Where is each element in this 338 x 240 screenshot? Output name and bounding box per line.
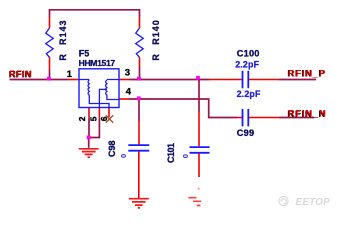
- resistor R143 pins: [49, 17, 51, 70]
- svg-text:HHM1517: HHM1517: [79, 58, 116, 68]
- resistor R143: [46, 28, 54, 57]
- svg-text:3: 3: [125, 67, 130, 78]
- wire branch down to C98: [138, 99, 140, 121]
- ground 2 under C98: [129, 199, 149, 208]
- wire pin4 net to C99: [130, 99, 238, 118]
- resistor R140: [136, 28, 144, 57]
- svg-text:0: 0: [181, 154, 190, 158]
- svg-text:C101: C101: [166, 143, 176, 163]
- svg-text:C100: C100: [237, 48, 260, 58]
- watermark EETOP logo: [279, 196, 288, 205]
- ground 1 under F5: [79, 149, 99, 157]
- balun F5 primary winding: [79, 80, 109, 108]
- balun F5 pin3 stub: [119, 79, 130, 81]
- capacitor C98 bottom pin: [138, 152, 140, 199]
- svg-text:5: 5: [89, 116, 99, 121]
- svg-text:C98: C98: [107, 140, 117, 157]
- svg-text:4: 4: [126, 86, 132, 97]
- resistor R140 pins: [139, 17, 141, 67]
- svg-text:EETOP: EETOP: [296, 197, 331, 208]
- svg-text:RFIN_N: RFIN_N: [288, 108, 327, 119]
- wire R143 bottom to junction: [49, 70, 51, 80]
- wire ground1 stem: [88, 138, 90, 148]
- capacitor C100 plates: [243, 71, 249, 89]
- junction node C101 branch: [196, 76, 200, 80]
- capacitor C100 pins: [209, 79, 279, 81]
- capacitor C98 plates: [128, 145, 149, 151]
- svg-text:0: 0: [119, 154, 128, 158]
- capacitor C101 bottom pin: [198, 154, 200, 178]
- svg-text:2.2pF: 2.2pF: [237, 89, 261, 99]
- svg-text:R143: R143: [58, 19, 68, 45]
- junction node pin4/C98: [137, 96, 141, 100]
- capacitor C101 top pin: [198, 112, 200, 146]
- capacitor C99 plates: [243, 109, 249, 127]
- ground 3 under C101 (faded): [198, 188, 200, 190]
- svg-text:R: R: [58, 54, 68, 61]
- wire RFIN to pin1: [10, 79, 69, 81]
- wire pin2 down: [88, 117, 90, 137]
- svg-text:R: R: [151, 54, 161, 61]
- junction node gnd1: [87, 136, 91, 140]
- svg-text:C99: C99: [237, 128, 254, 138]
- wire branch down to C101: [198, 80, 200, 113]
- wire pin5 down and left: [89, 117, 100, 137]
- balun F5 body box: [79, 69, 119, 108]
- no-connect X on pin 6: [106, 115, 113, 122]
- balun F5 pin4 stub: [119, 98, 130, 100]
- wire C100 to RFIN_P: [279, 79, 316, 81]
- junction node pin1: [47, 77, 51, 81]
- wire top loop: [50, 10, 140, 18]
- capacitor C98 top pin: [138, 121, 140, 145]
- capacitor C99 pins: [237, 117, 279, 119]
- svg-text:F5: F5: [79, 48, 90, 58]
- balun F5 pin2 pin5 pin6 stubs: [89, 108, 109, 118]
- junction node pin3/R140: [137, 77, 141, 81]
- wire R140 bottom to junction: [139, 67, 141, 79]
- svg-text:RFIN_P: RFIN_P: [288, 67, 326, 78]
- capacitor C101 plates: [190, 147, 210, 153]
- balun F5 secondary winding: [106, 80, 119, 100]
- balun F5 center tap: [99, 89, 107, 107]
- wire C99 to RFIN_N: [279, 117, 314, 119]
- svg-text:R140: R140: [151, 19, 161, 45]
- svg-text:1: 1: [67, 69, 73, 80]
- svg-text:RFIN: RFIN: [9, 68, 32, 79]
- wire pin3 net to C100: [130, 79, 210, 81]
- balun U F5 pin1 stub: [69, 79, 80, 81]
- svg-text:2: 2: [77, 116, 87, 121]
- svg-text:2.2pF: 2.2pF: [235, 59, 259, 69]
